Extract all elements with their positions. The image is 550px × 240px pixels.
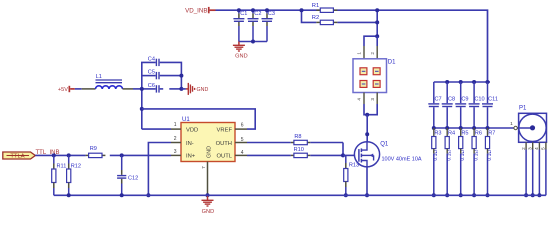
- svg-text:R6: R6: [475, 130, 482, 136]
- wire D1 bottom join: [364, 104, 377, 142]
- resistor R12: [67, 155, 81, 195]
- svg-text:C1: C1: [240, 11, 247, 17]
- resistor R5: [459, 128, 469, 197]
- svg-text:C11: C11: [488, 97, 498, 103]
- port TTLA: [3, 152, 36, 160]
- U1 pin 5: [235, 137, 247, 143]
- svg-text:C9: C9: [461, 97, 468, 103]
- svg-text:GND: GND: [207, 146, 213, 158]
- svg-text:GND: GND: [197, 87, 209, 93]
- wire gate node: [341, 143, 354, 158]
- svg-text:R8: R8: [294, 134, 301, 140]
- svg-text:VDD: VDD: [186, 127, 198, 133]
- wire VDD to +5V rail: [142, 128, 171, 130]
- svg-text:R13: R13: [349, 162, 359, 168]
- svg-text:D1: D1: [388, 60, 396, 66]
- U1 pin 4: [235, 150, 247, 156]
- capacitor C6: [148, 83, 159, 93]
- U1 pin 2: [171, 136, 181, 143]
- svg-text:R1: R1: [312, 3, 319, 9]
- wire +5V to L1: [75, 88, 96, 90]
- net label TTL_INB: [36, 150, 60, 156]
- svg-text:4: 4: [241, 150, 244, 156]
- power +5V: [58, 86, 75, 93]
- node C2: [251, 8, 255, 43]
- resistor R7: [485, 128, 495, 197]
- resistor R2: [302, 10, 378, 24]
- resistor R3: [432, 128, 442, 197]
- svg-text:1: 1: [510, 121, 513, 127]
- resistor R6: [472, 128, 482, 197]
- wire snubber top rail: [434, 80, 490, 84]
- svg-text:4: 4: [357, 98, 362, 101]
- svg-text:TTLA: TTLA: [10, 154, 24, 160]
- capacitor C7: [428, 82, 441, 128]
- ground GND right of C6: [186, 83, 209, 95]
- wire IN- to ground: [146, 143, 171, 198]
- svg-text:GND: GND: [235, 54, 247, 60]
- svg-text:OUTL: OUTL: [217, 154, 233, 160]
- capacitor C10: [469, 82, 485, 128]
- svg-text:C4: C4: [148, 57, 155, 63]
- wire D1 top feed: [364, 34, 379, 46]
- svg-text:C6: C6: [148, 83, 155, 89]
- capacitor C11: [482, 82, 498, 128]
- ground GND below U1: [202, 195, 215, 215]
- node C3: [265, 8, 269, 12]
- svg-text:VD_INB: VD_INB: [185, 8, 207, 15]
- svg-text:1: 1: [357, 52, 362, 55]
- svg-text:R3: R3: [434, 130, 441, 136]
- resistor R8: [247, 134, 343, 145]
- svg-text:100V 40mE 10A: 100V 40mE 10A: [382, 156, 422, 162]
- svg-text:R2: R2: [312, 15, 319, 21]
- resistor R1: [312, 3, 338, 13]
- svg-text:IN+: IN+: [186, 154, 196, 160]
- svg-text:2: 2: [521, 147, 526, 150]
- svg-text:C3: C3: [268, 11, 275, 17]
- P1 pin 5: [541, 142, 546, 195]
- U1 pin 1: [171, 122, 181, 129]
- svg-text:5: 5: [541, 147, 546, 150]
- svg-text:R9: R9: [90, 146, 97, 152]
- resistor R10: [247, 147, 343, 157]
- U1 pin 3: [171, 149, 181, 155]
- transformer D1: [353, 46, 396, 104]
- svg-text:2: 2: [174, 136, 177, 142]
- svg-text:C7: C7: [435, 97, 442, 103]
- capacitor C8: [442, 82, 455, 128]
- wire ground rail: [54, 193, 546, 197]
- svg-text:5: 5: [241, 137, 244, 143]
- transistor Q1: [354, 142, 421, 167]
- port VD_INB: [185, 7, 215, 15]
- svg-text:C10: C10: [474, 97, 484, 103]
- capacitor C1: [233, 10, 247, 41]
- capacitor C4: [148, 57, 159, 67]
- svg-text:C8: C8: [448, 97, 455, 103]
- wire Q1 source: [365, 167, 369, 197]
- capacitor C3: [262, 10, 275, 41]
- wire left rail C4-C6: [140, 62, 156, 129]
- svg-text:3: 3: [174, 149, 177, 155]
- wire top VD_INB rail: [216, 10, 488, 82]
- svg-text:C12: C12: [128, 176, 138, 182]
- svg-text:Q1: Q1: [380, 142, 389, 148]
- svg-text:4: 4: [534, 147, 539, 150]
- node R1-R2 left: [300, 8, 304, 12]
- connector P1: [510, 106, 546, 143]
- svg-text:3: 3: [528, 147, 533, 150]
- svg-text:1: 1: [174, 122, 177, 128]
- resistor R4: [445, 128, 455, 197]
- wire right rail C4-C6: [160, 62, 186, 91]
- svg-text:R4: R4: [448, 130, 455, 136]
- svg-text:R7: R7: [488, 130, 495, 136]
- U1 pin 6: [235, 122, 247, 129]
- svg-text:IN-: IN-: [186, 141, 194, 147]
- op-amp U1: [181, 117, 235, 162]
- svg-text:3: 3: [370, 98, 375, 101]
- P1 pin 4: [534, 142, 541, 197]
- svg-text:6: 6: [241, 122, 244, 128]
- svg-text:C5: C5: [148, 70, 155, 76]
- wire L1 to C cluster: [123, 88, 142, 90]
- wire VREF loop: [142, 109, 255, 129]
- P1 pin 2: [521, 142, 528, 197]
- wire snubber mid rail to P1: [432, 126, 515, 130]
- svg-text:P1: P1: [519, 106, 527, 112]
- svg-text:L1: L1: [96, 74, 102, 80]
- resistor R13: [344, 155, 359, 197]
- svg-text:R11: R11: [57, 163, 67, 169]
- node C1: [237, 8, 241, 12]
- node R1-R2 right: [375, 8, 379, 24]
- wire R2 to top rail: [376, 10, 378, 36]
- svg-text:OUTH: OUTH: [216, 141, 232, 147]
- ground GND top: [233, 42, 248, 60]
- U1 pin 7: [201, 162, 210, 198]
- svg-text:R5: R5: [461, 130, 468, 136]
- wire C1-C3 bottom: [239, 41, 267, 43]
- resistor R9: [86, 146, 106, 158]
- capacitor C12: [117, 155, 138, 195]
- svg-text:+5V: +5V: [58, 87, 68, 93]
- wire TTL row: [35, 153, 171, 157]
- svg-text:R10: R10: [294, 147, 304, 153]
- svg-text:VREF: VREF: [217, 127, 233, 133]
- capacitor C5: [148, 70, 159, 80]
- svg-text:R12: R12: [71, 163, 81, 169]
- svg-text:GND: GND: [202, 209, 214, 215]
- inductor L1: [96, 74, 123, 89]
- capacitor C2: [248, 10, 262, 41]
- svg-text:2: 2: [370, 52, 375, 55]
- capacitor C9: [455, 82, 468, 128]
- P1 pin 3: [528, 142, 535, 197]
- resistor R11: [52, 155, 67, 195]
- svg-text:7: 7: [201, 166, 206, 169]
- svg-text:C2: C2: [254, 11, 261, 17]
